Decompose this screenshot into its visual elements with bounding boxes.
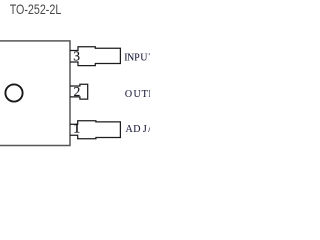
- svg-text:INPUT: INPUT: [124, 52, 150, 63]
- svg-text:3: 3: [73, 49, 80, 64]
- svg-text:2: 2: [74, 84, 81, 99]
- mounting hole circle: [5, 84, 22, 101]
- pin 2 lead outline: [70, 84, 88, 99]
- svg-text:1: 1: [73, 120, 80, 135]
- package body outline: [0, 41, 70, 146]
- svg-text:OUTPUT: OUTPUT: [125, 89, 150, 100]
- pin 1 lead outline: [70, 121, 120, 139]
- svg-text:ADJ/GND: ADJ/GND: [126, 124, 151, 135]
- svg-text:TO-252-2L: TO-252-2L: [10, 1, 62, 17]
- pin 3 lead outline: [70, 47, 120, 66]
